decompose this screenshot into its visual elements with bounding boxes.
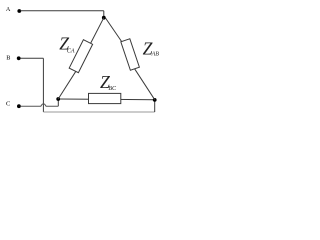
wire left leg lower segment <box>58 70 77 99</box>
wire C riser to bottom-left vertex <box>57 99 59 106</box>
node A terminal dot <box>17 9 21 13</box>
svg-text:BC: BC <box>108 86 117 92</box>
junction dot bottom-left vertex <box>56 97 60 101</box>
wire C horizontal with hop over B wire <box>21 104 59 106</box>
node C terminal dot <box>17 104 21 108</box>
junction dot bottom-right vertex <box>153 98 157 102</box>
wire left leg upper segment <box>91 18 104 44</box>
wire A horizontal <box>21 10 104 12</box>
svg-text:A: A <box>6 6 11 13</box>
wire A drop to top vertex <box>103 11 105 18</box>
impedance box Z_AB <box>121 39 140 70</box>
wire B bottom run <box>43 111 154 113</box>
wire right leg upper segment <box>105 18 122 43</box>
svg-text:CA: CA <box>67 48 75 54</box>
junction dot top vertex <box>102 16 106 20</box>
svg-text:C: C <box>6 101 10 108</box>
impedance box Z_BC <box>89 93 121 103</box>
wire B riser to bottom-right vertex <box>154 100 156 112</box>
svg-text:B: B <box>6 54 10 61</box>
wire B horizontal <box>20 57 43 59</box>
wire B vertical <box>42 58 44 112</box>
svg-text:AB: AB <box>151 52 160 58</box>
wire right leg lower segment <box>134 68 155 100</box>
wire bottom leg of delta <box>58 98 155 101</box>
node B terminal dot <box>17 56 21 60</box>
impedance box Z_CA <box>69 40 92 73</box>
